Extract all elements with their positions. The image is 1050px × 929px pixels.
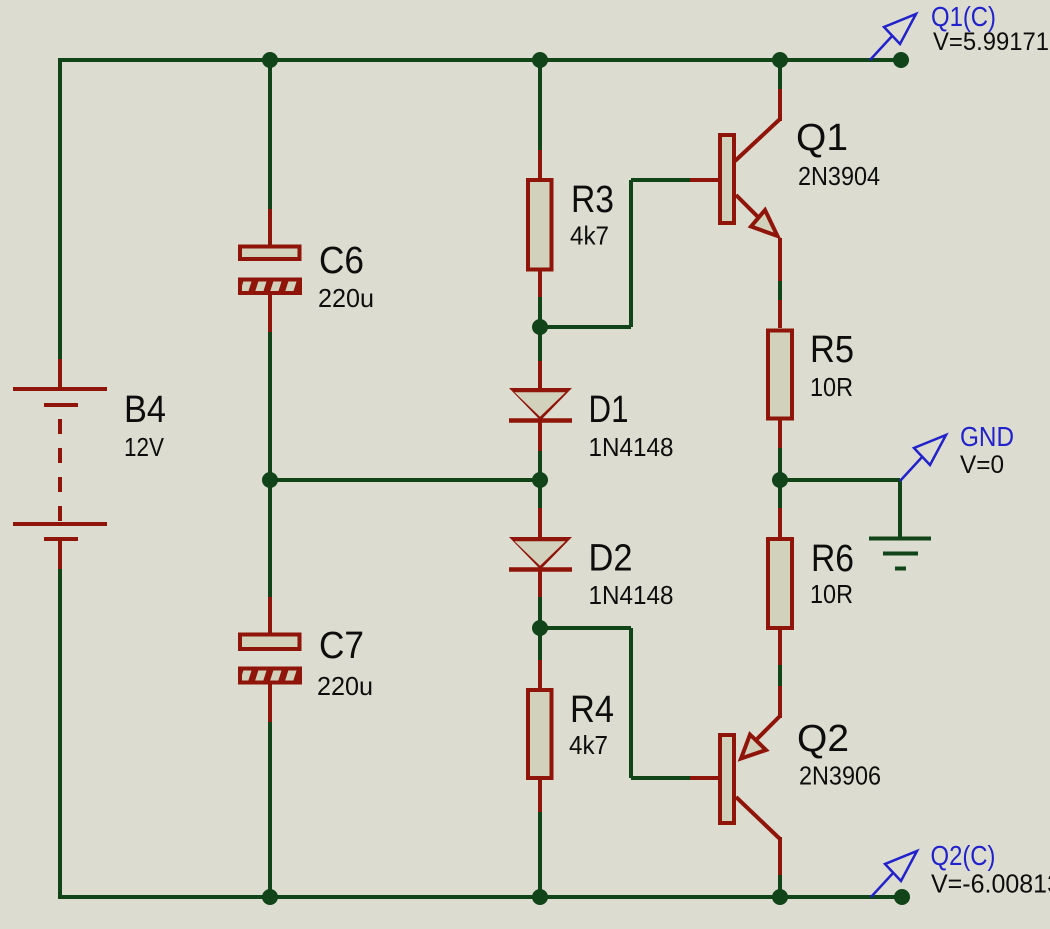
pin R5 bottom [778,420,782,448]
wire bottom rail [58,895,903,899]
resistor R3 [528,180,552,270]
pin R5 top [778,300,782,328]
battery B4 [13,359,107,569]
diode D1 [509,388,572,421]
wire C6 to mid junction [268,332,272,480]
wire R6 to Q2 [778,665,782,686]
probe Q2(C) [871,851,917,897]
svg-text:2N3904: 2N3904 [798,161,880,191]
svg-text:R4: R4 [570,689,614,731]
diode D2 [509,537,572,570]
wire R3 to D1 [538,297,542,361]
junction mid-R5R6 [772,472,788,488]
pin C6 bottom [268,295,272,332]
wire R4 to bottom rail [538,812,542,897]
junction top-R3 [532,52,548,68]
pin D2 cathode [538,569,542,597]
pin R3 bottom [538,271,542,297]
junction bottom-C7 [262,889,278,905]
svg-text:C6: C6 [319,240,364,282]
pin Q2 base [690,776,718,780]
junction R3-D1-base [532,319,548,335]
capacitor C7 hatched plate [235,664,302,686]
svg-text:V=5.99171: V=5.99171 [933,28,1049,56]
wire top rail [58,58,902,62]
wire mid junction to R6 [778,480,782,508]
svg-text:10R: 10R [810,372,853,402]
svg-text:1N4148: 1N4148 [589,432,674,462]
junction D2-R4-base [532,620,548,636]
wire Q1 base horizontal [540,325,631,329]
pin D1 anode [538,361,542,392]
wire mid junction to C7 [268,480,272,597]
pin Q2 collector stub [778,837,782,875]
svg-text:2N3906: 2N3906 [799,761,881,791]
svg-text:V=-6.00813: V=-6.00813 [931,871,1050,899]
pin Q1 emitter stub [778,238,782,281]
wire Q1 emitter to R5 [778,281,782,300]
wire mid junction to GND [780,478,900,482]
svg-text:GND: GND [960,421,1014,452]
transistor Q1 [720,119,780,236]
pin Q1 collector stub [778,89,782,121]
wire Q2 base vertical [629,628,633,778]
pin C7 top [268,597,272,634]
svg-text:R5: R5 [810,329,854,371]
wire C7 to bottom rail [268,722,272,897]
svg-text:1N4148: 1N4148 [589,580,674,610]
svg-text:D2: D2 [589,538,633,580]
svg-text:R6: R6 [811,538,854,580]
wire top rail to Q1 collector [778,60,782,89]
pin R4 bottom [538,780,542,812]
svg-text:C7: C7 [319,625,364,667]
probe GND [900,435,946,481]
wire D1 to mid junction [538,451,542,480]
svg-text:Q2(C): Q2(C) [931,840,996,871]
svg-text:220u: 220u [317,671,373,701]
pin R6 top [778,508,782,537]
wire mid rail [270,478,540,482]
wire Q2 base horizontal [540,626,631,630]
junction mid-D1D2 [532,472,548,488]
svg-text:R3: R3 [571,179,614,221]
pin Q2 emitter stub [778,686,782,718]
wire mid junction to D2 [538,480,542,508]
pin R6 bottom [778,630,782,665]
transistor Q2 [720,716,780,839]
junction top-Q1 [772,52,788,68]
junction mid-C6C7 [262,472,278,488]
svg-text:4k7: 4k7 [569,730,608,760]
wire left rail lower [58,569,62,898]
wire Q1 base vertical [629,180,633,327]
ground [869,539,931,569]
resistor R4 [528,690,552,778]
node top rail end [893,52,909,68]
pin R4 top [538,660,542,688]
svg-text:Q2: Q2 [797,718,849,760]
pin C7 bottom [268,684,272,722]
wire left rail upper [58,58,62,359]
junction bottom-R4 [532,889,548,905]
pin Q1 base [690,178,718,182]
capacitor C7 [240,635,300,650]
svg-text:12V: 12V [124,432,165,462]
pin R3 top [538,150,542,178]
capacitor C6 [240,247,300,260]
svg-text:4k7: 4k7 [570,221,609,251]
svg-text:220u: 220u [318,283,374,313]
wire Q2 collector to bottom rail [778,875,782,897]
svg-text:V=0: V=0 [960,451,1004,479]
wire Q1 base to pin [631,178,690,182]
svg-text:Q1: Q1 [796,117,848,159]
resistor R5 [768,331,792,419]
pin D1 cathode [538,420,542,451]
svg-text:D1: D1 [589,389,629,431]
junction bottom-Q2 [772,889,788,905]
pin C6 top [268,209,272,246]
resistor R6 [768,539,792,628]
svg-text:10R: 10R [810,579,853,609]
capacitor C6 hatched plate [235,275,302,297]
wire D2 to junction [538,597,542,628]
pin D2 anode [538,508,542,541]
probe Q1(C) [870,14,916,60]
svg-text:B4: B4 [124,389,166,431]
wire top rail to R3 [538,60,542,150]
node bottom rail end [894,889,910,905]
wire Q2 base to pin [631,776,690,780]
wire top rail to C6 [268,60,272,209]
wire junction to R4 [538,628,542,660]
junction top-C6 [262,52,278,68]
wire R5 to mid junction [778,448,782,480]
wire GND down [898,480,902,540]
